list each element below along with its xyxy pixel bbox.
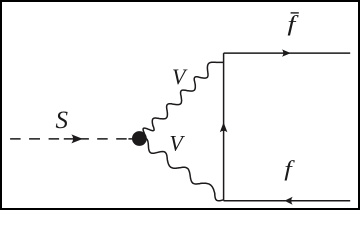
blob vertex	[132, 131, 147, 146]
boson line V (upper wavy)	[138, 62, 224, 139]
fermion line f (bottom)	[224, 200, 351, 202]
fermion line fbar (top)	[224, 52, 351, 54]
arrow on vertical fermion line	[220, 122, 228, 132]
boson line V (lower wavy)	[140, 138, 224, 201]
arrow on f line	[284, 197, 292, 205]
arrow on fbar line	[282, 49, 291, 56]
svg-text:S: S	[56, 107, 69, 134]
arrow on scalar line	[71, 134, 82, 143]
scalar line S (dashed propagator)	[10, 138, 139, 140]
fermion propagator (vertical)	[223, 53, 225, 201]
